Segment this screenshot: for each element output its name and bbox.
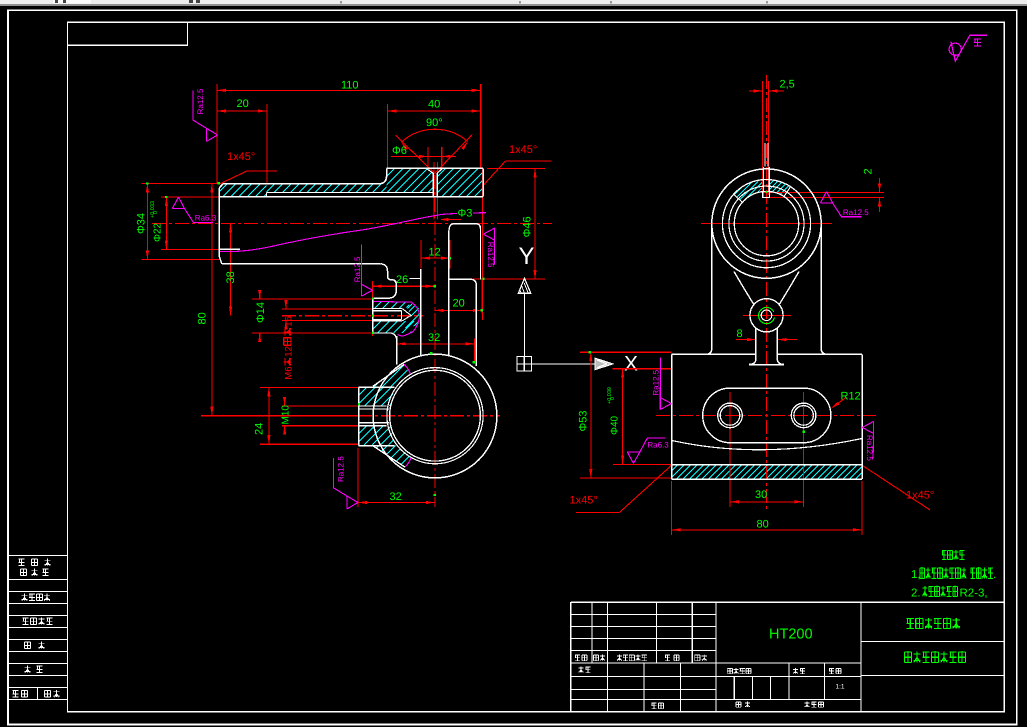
ext lines slot 2.5	[762, 81, 764, 195]
svg-text:Φ6: Φ6	[392, 145, 407, 157]
centerline: vertical boss axis	[434, 175, 436, 507]
svg-text:M6: M6	[284, 366, 295, 379]
ext line right face long	[481, 169, 483, 321]
base hole right	[791, 403, 816, 428]
dim phi34	[146, 184, 148, 260]
svg-text:1:1: 1:1	[836, 684, 845, 691]
web left edge	[420, 269, 422, 356]
svg-text:1,: 1,	[911, 569, 921, 581]
svg-text:X: X	[624, 353, 638, 376]
svg-text:Φ22: Φ22	[153, 222, 164, 242]
bump under sleeve (M6 boss top profile)	[373, 264, 397, 299]
tech requirements title	[942, 551, 947, 560]
projection line to arrow	[532, 363, 596, 365]
centerline: M6 end axis	[743, 314, 791, 316]
ring chamfer circle	[387, 368, 483, 464]
ext line base bottom left	[580, 477, 672, 479]
ext lines M6 thread	[282, 308, 373, 310]
right ring phi34 circle	[722, 180, 810, 268]
phi46 boss right portion	[454, 224, 481, 279]
ext lines phi6 countersink	[427, 147, 429, 168]
left edge table	[8, 555, 68, 557]
slot edges	[763, 167, 765, 192]
centerline: right ring horizontal	[701, 222, 832, 224]
ext lines phi34	[142, 183, 220, 185]
break line M6 bottom	[398, 333, 412, 336]
centerline: sleeve axis	[152, 222, 552, 224]
svg-text:.: .	[993, 569, 996, 581]
M10 boss rectangle	[358, 387, 360, 445]
dim 32 top	[397, 343, 475, 345]
svg-text:0: 0	[610, 397, 616, 400]
centerline: M6 hole axis	[282, 315, 423, 317]
svg-text:HT200: HT200	[769, 627, 813, 643]
centerline: base holes axis	[656, 414, 876, 416]
roughness Ra12.5 top-left	[207, 128, 218, 141]
roughness Ra12.5 bottom-left	[347, 496, 358, 509]
sleeve bore lines	[219, 196, 483, 198]
svg-text:26: 26	[396, 274, 408, 286]
roughness symbol top-right corner (other surfaces)	[949, 43, 961, 55]
svg-text:90°: 90°	[426, 117, 443, 129]
roughness Ra6.3 sleeve bore	[172, 197, 184, 208]
roughness Ra12.5 sleeve right	[483, 228, 494, 240]
datum target box	[517, 357, 532, 372]
ext lines dim 2	[763, 191, 884, 193]
school name (green)	[907, 618, 914, 628]
svg-text:Ra12.5: Ra12.5	[652, 369, 661, 395]
break line M6 right	[411, 302, 420, 333]
svg-text:80: 80	[757, 519, 769, 531]
dim 20 right	[435, 309, 482, 311]
M6 minor circle	[761, 310, 772, 321]
svg-text:1x45°: 1x45°	[227, 151, 255, 163]
break line sleeve (spline)	[219, 213, 457, 251]
dim 80 left	[211, 184, 213, 416]
svg-text:Ra12.5: Ra12.5	[353, 256, 362, 282]
ext lines phi46	[487, 167, 545, 169]
dim 24	[268, 387, 270, 444]
svg-text:12: 12	[429, 247, 441, 259]
title block horizontals	[571, 614, 716, 616]
centerline: right view vertical	[766, 75, 768, 512]
svg-text:20: 20	[453, 298, 465, 310]
countersink V and phi3 hole	[426, 168, 433, 196]
svg-text:2: 2	[863, 168, 875, 174]
dim 32 bottom	[358, 502, 435, 504]
svg-text:Φ40: Φ40	[610, 415, 621, 435]
dim M6x12x16	[285, 300, 287, 309]
slot wedge radial edges	[734, 194, 743, 202]
leader 1x45 bottom-right	[862, 465, 930, 510]
base hatch strip top line	[672, 464, 863, 466]
svg-text:16: 16	[284, 316, 295, 327]
vertex dots	[217, 182, 219, 184]
title block verticals	[591, 602, 593, 663]
base sides and bottom	[671, 354, 673, 479]
phi53 cylinder sides	[706, 225, 712, 354]
ext lines dim 80	[671, 481, 673, 535]
ext lines phi3 hole	[433, 162, 435, 220]
drawing title (green)	[905, 651, 912, 662]
svg-text:1x45°: 1x45°	[509, 144, 537, 156]
sleeve outline	[223, 183, 379, 185]
break line M6 top	[373, 300, 411, 303]
ext lines phi14	[252, 298, 373, 300]
dim 40	[387, 110, 480, 112]
svg-text:Ra12.5: Ra12.5	[865, 435, 874, 461]
leader R12	[833, 398, 847, 408]
svg-text:2,5: 2,5	[780, 79, 795, 91]
svg-text:2.: 2.	[911, 588, 921, 600]
ext line phi40 top	[613, 368, 672, 370]
svg-text:32: 32	[390, 491, 402, 503]
toolbar strip	[0, 0, 1027, 5]
svg-text:40: 40	[428, 99, 440, 111]
svg-text:Ra12.5: Ra12.5	[486, 242, 495, 268]
roughness Ra12.5 M6 boss	[361, 284, 372, 296]
svg-text:+0.039: +0.039	[607, 387, 613, 404]
web to small boss curves	[734, 272, 754, 305]
svg-text:12: 12	[284, 346, 295, 357]
ext line phi40 bottom	[613, 463, 671, 465]
break line lower neck	[405, 458, 411, 468]
dim 20 top	[217, 110, 267, 112]
svg-text:Φ14: Φ14	[255, 302, 267, 323]
svg-text:+0.033: +0.033	[150, 201, 156, 218]
svg-text:8: 8	[737, 328, 743, 340]
open arrow	[595, 358, 613, 369]
leader 1x45 top-left	[220, 171, 248, 184]
dim phi53	[590, 352, 592, 478]
svg-text:1x45°: 1x45°	[570, 495, 598, 507]
svg-text:Φ3: Φ3	[458, 208, 473, 220]
svg-text:Φ46: Φ46	[522, 216, 534, 237]
dim phi22	[165, 197, 167, 249]
svg-text:80: 80	[197, 312, 209, 324]
roughness Ra12.5 right view right	[862, 421, 873, 433]
right ring chamfer circle	[729, 186, 804, 261]
dim 2.5	[749, 90, 763, 92]
ext lines top dims	[216, 84, 218, 184]
dim 38	[230, 223, 232, 315]
leader phi3 arrow	[446, 219, 461, 221]
svg-text:M10: M10	[281, 405, 292, 425]
top-left accessory box	[68, 22, 188, 45]
ext lines 32 bottom	[357, 448, 359, 507]
break line upper neck	[404, 364, 411, 375]
right ring outer circle	[712, 169, 821, 278]
dim 30	[730, 501, 804, 503]
dim 110	[217, 89, 481, 91]
ext lines dim 8	[755, 332, 757, 352]
roughness Ra12.5 right view left	[660, 398, 671, 410]
phi32 boss left edge	[396, 336, 398, 365]
small boss circle (M6 end)	[750, 299, 783, 332]
svg-text:Ra12.5: Ra12.5	[336, 456, 345, 482]
dim phi40	[622, 369, 624, 465]
M6 boss left face and bottom	[372, 298, 374, 333]
neck diagonals to ring	[373, 365, 404, 387]
dim 8	[736, 339, 756, 341]
title block small labels	[575, 655, 580, 661]
title block frame	[571, 601, 1005, 603]
slot hidden lines above	[764, 143, 766, 167]
base top line	[672, 353, 756, 355]
datum Y triangle	[518, 278, 531, 293]
svg-text:Ra12.5: Ra12.5	[196, 88, 205, 114]
left table labels	[18, 559, 24, 566]
svg-text:Y: Y	[519, 243, 535, 270]
leader 1x45 bottom-left	[576, 511, 620, 513]
ring outer circle	[373, 354, 497, 478]
svg-text:20: 20	[237, 98, 249, 110]
svg-text:1x45°: 1x45°	[906, 490, 934, 502]
dim phi14	[259, 290, 261, 299]
svg-text:0: 0	[153, 211, 159, 214]
web right edge + fillet	[449, 224, 454, 356]
M10 tapped hole	[359, 405, 387, 407]
right ring bore circle	[734, 191, 798, 255]
svg-text:110: 110	[341, 80, 359, 92]
dim 26	[373, 285, 435, 287]
M6 tapped hole	[373, 308, 403, 310]
svg-text:Ra6.3: Ra6.3	[195, 214, 217, 223]
dim phi6	[391, 155, 456, 157]
dim 90deg countersink	[396, 135, 435, 173]
dim 80 right view	[672, 529, 863, 531]
svg-text:Ra12.5: Ra12.5	[843, 208, 869, 217]
neck below boss	[749, 328, 756, 365]
M6 thread circle (green arc)	[759, 307, 775, 323]
ext lines M10	[282, 405, 359, 407]
ext lines 32 top	[396, 339, 398, 362]
datum Y stem	[524, 293, 526, 356]
leader 1x45 top-right	[484, 161, 506, 185]
centerline: ring horizontal axis + 80 ext	[201, 415, 358, 417]
svg-text:38: 38	[225, 271, 237, 283]
dim 12 web	[421, 257, 450, 259]
svg-text:32: 32	[428, 332, 440, 344]
svg-text:Ra6.3: Ra6.3	[647, 440, 669, 449]
ring bore circle	[390, 370, 481, 461]
top boss block	[387, 167, 483, 169]
ext line base top left	[580, 351, 672, 353]
svg-text:Φ53: Φ53	[578, 410, 590, 431]
ext lines base holes	[729, 392, 731, 507]
ext lines phi22	[161, 196, 267, 198]
svg-text:24: 24	[254, 423, 266, 435]
ext lines 24	[260, 386, 359, 388]
svg-text:Φ34: Φ34	[136, 213, 148, 234]
dim 2	[879, 178, 881, 192]
roughness Ra12.5 right view top	[821, 192, 833, 203]
obround slot	[703, 388, 831, 443]
svg-text:30: 30	[755, 489, 767, 501]
dim phi46	[534, 168, 536, 279]
base hole left	[718, 403, 743, 428]
svg-text:R2-3,: R2-3,	[960, 588, 988, 600]
roughness Ra6.3 right view bottom	[627, 452, 640, 463]
dim M10	[284, 398, 286, 406]
phi32 boss right shoulder	[449, 279, 476, 366]
cast surface curve	[672, 439, 863, 450]
svg-text:R12: R12	[841, 391, 861, 403]
ext line M6 boss face	[372, 281, 374, 336]
slot bottom notch	[763, 192, 770, 198]
ext lines 12 web	[420, 240, 422, 269]
